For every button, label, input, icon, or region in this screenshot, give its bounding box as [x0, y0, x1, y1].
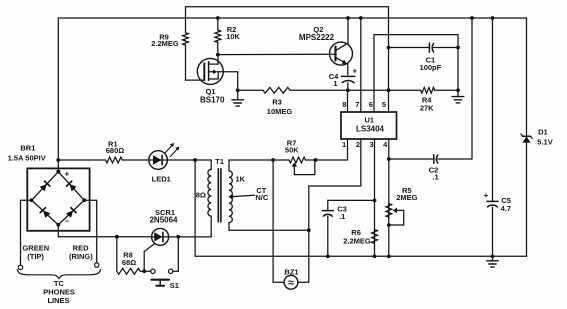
wire D1 rail (right edge)	[526, 18, 528, 256]
label R8 68ohm	[122, 250, 136, 267]
node secondary-bottom junction	[307, 228, 311, 232]
wire left rail down to bridge +	[57, 18, 59, 172]
op-amp U1 LS3404 IC box	[341, 112, 397, 139]
label CT N/C	[255, 186, 269, 202]
node Q2 collector on y=18 rail	[346, 16, 350, 20]
wire C3 top lead and row to pin3 rail	[328, 200, 375, 210]
wire R2 top lead	[217, 18, 219, 30]
label C3 .1	[337, 204, 347, 221]
node C3/bottom bus	[326, 254, 330, 258]
Q2 collector diagonal	[336, 44, 347, 51]
Q1 source stubs	[209, 72, 219, 79]
svg-text:MPS2222: MPS2222	[299, 33, 335, 42]
svg-text:BZ1: BZ1	[284, 268, 298, 277]
svg-text:8: 8	[342, 100, 346, 109]
pin 4 lead and label	[383, 139, 389, 256]
pin 1 lead and label	[316, 139, 348, 160]
terminal red/ring	[95, 263, 99, 267]
svg-text:+: +	[484, 191, 489, 200]
label R5 2MEG	[396, 186, 417, 202]
label LED1	[152, 175, 171, 184]
wire R4 right lead	[435, 89, 458, 91]
ground under Q1	[232, 90, 244, 106]
wire bridge AC right lead (red/ring)	[84, 200, 97, 263]
label C1 100pF	[420, 55, 442, 72]
svg-text:10K: 10K	[226, 32, 240, 41]
svg-text:7: 7	[355, 100, 359, 109]
svg-text:8Ω: 8Ω	[196, 191, 206, 200]
svg-text:2.2MEG: 2.2MEG	[343, 237, 371, 246]
svg-text:5.1V: 5.1V	[537, 137, 552, 146]
resistor R3	[263, 87, 290, 93]
SCR1 circle and diode	[152, 228, 169, 245]
resistor R7	[289, 157, 306, 163]
wire R3 to C4 node	[290, 89, 348, 91]
svg-text:Q1: Q1	[206, 87, 216, 96]
svg-text:2: 2	[356, 140, 360, 149]
label R4 27K	[420, 96, 434, 113]
Q1 gate bar	[203, 64, 205, 81]
svg-text:(RING): (RING)	[69, 252, 93, 261]
wire C2 left lead	[389, 158, 434, 160]
label R7 50K	[285, 138, 299, 154]
svg-text:N/C: N/C	[255, 193, 269, 202]
wire pin5 rail (top bus to pin 5)	[388, 7, 390, 112]
node junction bridge+/R1 row	[56, 158, 60, 162]
resistor R4	[421, 87, 435, 93]
svg-text:D1: D1	[538, 128, 548, 137]
node R8 branch	[115, 235, 119, 239]
wire buzzer right lead	[298, 281, 309, 283]
svg-text:1: 1	[333, 79, 337, 88]
label R9 2.2MEG	[151, 32, 179, 48]
wire R8 to S1	[140, 270, 150, 272]
label SCR1 2N5064	[149, 208, 178, 225]
label C2 .1	[429, 165, 439, 181]
resistor R9	[183, 33, 189, 45]
capacitor C5 plates	[487, 201, 498, 207]
svg-text:.1: .1	[432, 172, 438, 181]
svg-text:.1: .1	[339, 212, 345, 221]
LED1 emission arrows	[165, 143, 179, 157]
bridge diamond outline	[32, 172, 84, 225]
label BZ1	[284, 268, 298, 277]
wire C4 node to pin5 rail	[348, 89, 389, 91]
transformer T1 core	[218, 169, 221, 222]
wire Q2 emitter to C4	[347, 64, 349, 75]
node R6/bottom bus	[373, 254, 377, 258]
brace to phone lines	[17, 270, 100, 279]
ground under R4 rail	[452, 90, 464, 103]
ground under C5	[487, 256, 499, 267]
resistor R2	[215, 30, 221, 42]
label S1	[170, 281, 179, 290]
node pin7 top on y=18 rail	[359, 16, 363, 20]
label R6 2.2MEG	[343, 228, 371, 246]
label R2 10K	[226, 25, 240, 41]
svg-text:U1: U1	[365, 115, 375, 124]
terminal green/tip	[18, 265, 22, 269]
svg-text:4.7: 4.7	[501, 204, 511, 213]
wire bridge- row to SCR	[58, 236, 151, 238]
label 8ohm	[196, 191, 206, 200]
label BR1 1.5A 50PIV	[8, 144, 46, 163]
Q2 base bar	[334, 47, 336, 61]
svg-text:LS3404: LS3404	[356, 125, 385, 134]
resistor R6 (on pin3 rail)	[372, 230, 378, 244]
wire C2 right lead up to y=18 rail	[438, 18, 472, 159]
pin 8 lead and label	[342, 90, 347, 112]
svg-text:R3: R3	[272, 97, 282, 106]
wire R2 bottom to node	[217, 42, 219, 54]
node C3-row/pin3 rail	[373, 199, 377, 203]
wire pin2 rail down to buzzer	[308, 186, 310, 282]
svg-text:1.5A 50PIV: 1.5A 50PIV	[8, 153, 46, 162]
svg-text:1K: 1K	[236, 174, 246, 183]
bridge vertex nodes	[30, 170, 86, 227]
pin 5 label	[382, 100, 386, 109]
wire T1 center tap	[230, 195, 255, 199]
label Q2 MPS2222	[299, 25, 335, 42]
node R7-left / vertical rail	[271, 158, 275, 162]
wire node to R3	[238, 89, 263, 91]
transistor Q1 BS170 body circle	[197, 58, 223, 84]
Q2 emitter diagonal with arrow	[336, 57, 348, 64]
wire R4 left lead	[389, 89, 421, 91]
svg-text:BR1: BR1	[20, 144, 35, 153]
label R3 10MEG	[267, 97, 293, 116]
node R7 wiper return	[314, 158, 318, 162]
diode D1 zener symbol	[521, 134, 532, 143]
svg-text:BS170: BS170	[200, 96, 225, 105]
svg-text:68Ω: 68Ω	[122, 258, 136, 267]
svg-text:2N5064: 2N5064	[149, 216, 178, 225]
label RED (RING)	[69, 244, 93, 262]
wire C5 rail	[492, 18, 494, 201]
wire R9 bottom to Q1 gate	[186, 45, 205, 80]
Q1 channel bar	[208, 62, 210, 80]
svg-text:+: +	[64, 170, 69, 179]
bridge diode top-left	[40, 181, 50, 191]
wire buzzer left lead	[273, 281, 284, 283]
resistor R5 (on pin4 rail)	[386, 203, 392, 217]
resistor R1	[106, 157, 123, 163]
node SCR right / S1 return	[176, 235, 180, 239]
wire LED1 to T1	[167, 159, 211, 161]
svg-text:T1: T1	[215, 157, 224, 166]
wire C4 bottom lead	[347, 83, 349, 91]
bridge diode bottom-right	[66, 208, 76, 218]
wire bridge AC left lead (green/tip)	[21, 200, 32, 265]
label U1 LS3404	[356, 115, 385, 133]
pin 7 lead and label	[355, 18, 361, 112]
wire bridge+ to R1	[58, 159, 105, 161]
capacitor C2 plates	[434, 155, 438, 164]
bridge + and - marks	[64, 170, 69, 226]
bridge diode bottom-left	[40, 208, 50, 218]
wire C1 left lead	[389, 47, 430, 49]
node R4/right-rail	[456, 88, 460, 92]
node pin5-rail/C1 row	[387, 46, 391, 50]
transformer T1 secondary winding	[229, 160, 232, 223]
label R1 680ohm	[106, 140, 125, 155]
transistor Q2 MPS2222 body circle	[330, 42, 353, 65]
svg-text:680Ω: 680Ω	[106, 146, 125, 155]
node C2 rail top	[470, 16, 474, 20]
wire R8 branch down	[116, 237, 118, 272]
svg-text:S1: S1	[170, 281, 179, 290]
wire R1 to LED1	[122, 159, 149, 161]
wire rail R7-left down to buzzer	[272, 160, 274, 282]
label D1 5.1V	[537, 128, 552, 147]
capacitor C1 plates	[429, 43, 433, 52]
svg-text:≈: ≈	[288, 277, 294, 289]
pin 3 lead (rail to bottom bus) and label	[370, 139, 375, 256]
wire C1 right lead	[434, 47, 458, 49]
svg-text:6: 6	[369, 100, 373, 109]
wire Q2 collector lead	[347, 18, 349, 45]
svg-text:50K: 50K	[285, 146, 299, 155]
label TC PHONES LINES	[43, 279, 75, 305]
SCR gate wire	[144, 244, 154, 272]
wire bridge - lead down	[57, 225, 59, 237]
svg-text:1: 1	[342, 140, 346, 149]
wire T1 primary bottom lead	[210, 216, 212, 237]
node R2 top on y=18 rail	[216, 16, 220, 20]
wire pin6 up and over to right rail	[374, 35, 458, 112]
node R2/Q1-drain/Q2-base junction	[216, 53, 220, 57]
switch S1 pushbutton	[152, 280, 169, 286]
svg-text:27K: 27K	[420, 103, 434, 112]
label C5 4.7 and + sign	[484, 191, 512, 213]
wire top bus (y=7) from R9 to pin-5 rail	[186, 6, 389, 8]
label GREEN (TIP)	[22, 244, 49, 262]
node pin4/C2 junction	[387, 157, 391, 161]
wire main top rail (y=18)	[58, 17, 526, 19]
node C1/right-rail	[456, 46, 460, 50]
svg-text:3: 3	[370, 140, 374, 149]
LED1 circle and diode	[149, 151, 168, 170]
node gate/R8/S1 junction	[142, 269, 146, 273]
svg-text:+: +	[352, 66, 357, 75]
node C5 rail top	[491, 16, 495, 20]
node R5 wiper return on rail	[387, 223, 391, 227]
label T1	[215, 157, 224, 166]
buzzer BZ1 circle	[284, 275, 298, 289]
wire base line to Q2	[218, 53, 336, 55]
resistor R8	[117, 268, 141, 274]
node LED/T1/SCR junction	[193, 158, 197, 162]
capacitor C4 plates	[341, 76, 355, 82]
wire Q1 source out	[218, 72, 238, 91]
bridge diode top-right	[66, 181, 76, 191]
node Q1-source/R3/ground	[236, 88, 240, 92]
svg-text:10MEG: 10MEG	[267, 107, 293, 116]
label C4 1 and + sign	[329, 66, 358, 88]
wire C5 bottom lead	[492, 207, 494, 256]
wire SCR anode to T1	[169, 236, 212, 238]
capacitor C3 plates	[322, 211, 333, 217]
transformer T1 primary winding	[208, 160, 211, 216]
R5 wiper arrow and return loop	[389, 208, 404, 225]
svg-text:–: –	[65, 216, 70, 225]
bridge BR1 box	[27, 168, 89, 230]
svg-text:2.2MEG: 2.2MEG	[151, 39, 179, 48]
node R5/bottom bus	[387, 254, 391, 258]
node pin5-rail/R4 row	[387, 88, 391, 92]
Q1 drain stub and lead	[209, 55, 218, 65]
svg-text:LED1: LED1	[152, 175, 171, 184]
wire C3 bottom lead to bus	[327, 216, 329, 256]
label 1K	[236, 174, 246, 183]
svg-text:5: 5	[382, 100, 386, 109]
svg-text:2MEG: 2MEG	[396, 193, 417, 202]
pin 6 label	[369, 100, 373, 109]
svg-text:100pF: 100pF	[420, 63, 442, 72]
wire R7 right to pin1	[306, 159, 316, 161]
switch S1 terminals	[151, 269, 173, 273]
label Q1 BS170	[200, 87, 225, 105]
wire R9 top lead from y=7 bus	[185, 7, 187, 33]
Q1 source arrow	[209, 70, 218, 74]
wire R7 row from T1 secondary	[229, 159, 289, 161]
wire bottom bus	[195, 255, 526, 257]
svg-text:(TIP): (TIP)	[27, 252, 44, 261]
wire T1 secondary bottom lead	[229, 223, 309, 231]
svg-text:LINES: LINES	[47, 296, 69, 305]
node C4/R3/pin8 junction	[346, 88, 350, 92]
node C5/bottom bus	[491, 254, 495, 258]
R7 wiper arrow and return loop	[292, 160, 315, 175]
pin 2 lead and label	[309, 139, 361, 186]
wire S1 return up to SCR right	[173, 237, 178, 271]
wire junction down to bottom bus	[194, 160, 196, 256]
